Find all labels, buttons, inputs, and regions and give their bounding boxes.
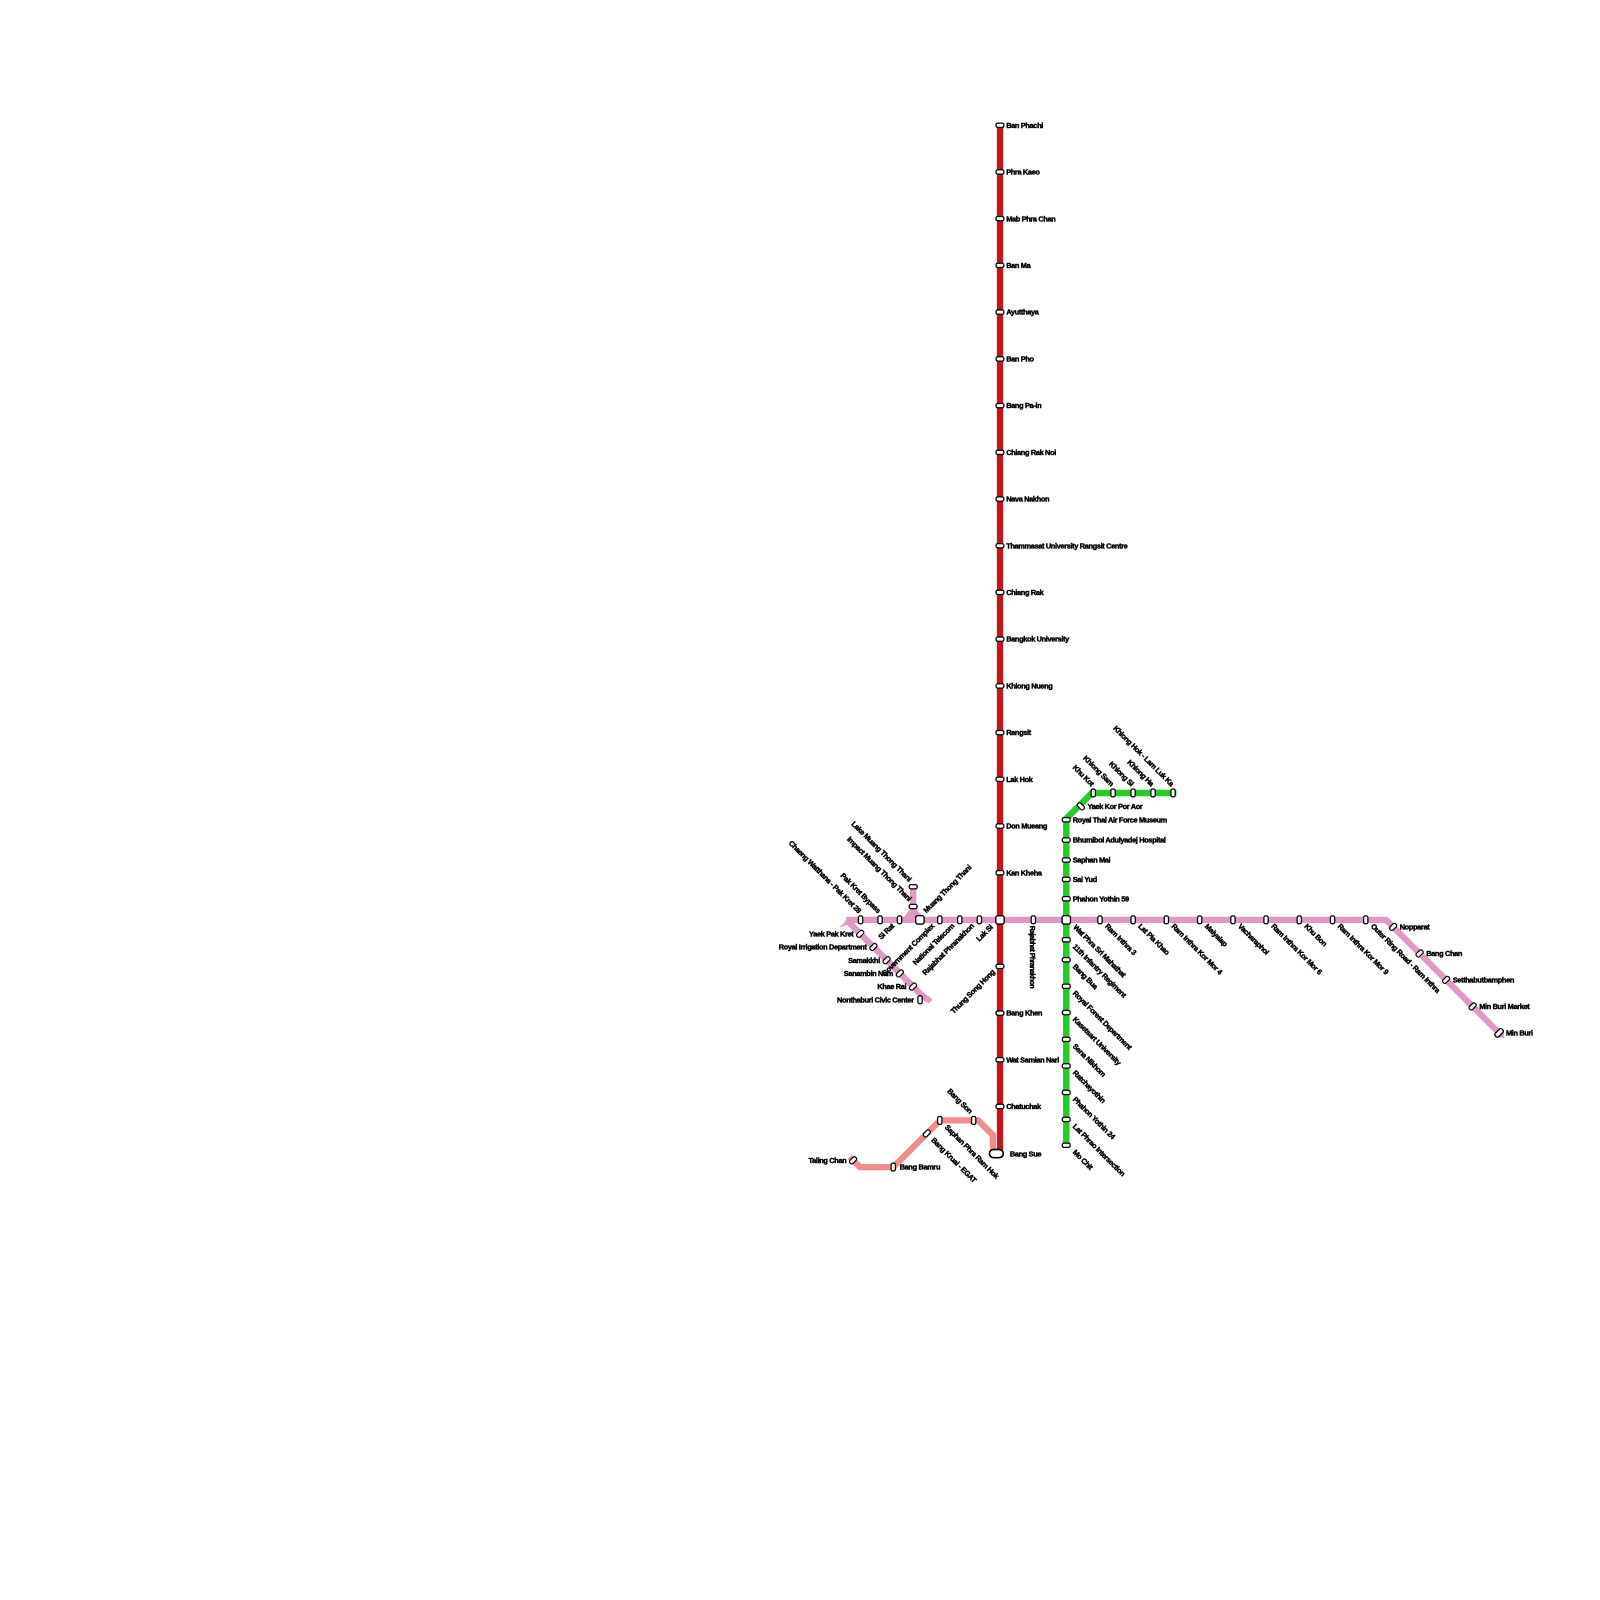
wire: pink west taper wedge xyxy=(839,917,851,928)
station Nopparat (pink) xyxy=(1389,923,1398,932)
svg-text:Don Mueang: Don Mueang xyxy=(1006,822,1048,831)
svg-text:Mo Chit: Mo Chit xyxy=(1071,1148,1095,1172)
wire: SRT dark red line (Ban Phachi - Bang Sue) xyxy=(997,123,1003,1153)
svg-text:Min Buri: Min Buri xyxy=(1506,1029,1533,1038)
station Bhumibol Adulyadej Hospital (green) xyxy=(1062,838,1070,842)
station Thung Song Hong (red) xyxy=(996,964,1004,968)
station Phahon Yothin 59 (green) xyxy=(1062,897,1070,901)
station Government Complex (pink) xyxy=(938,916,942,924)
svg-text:Yaek Kor Por Aor: Yaek Kor Por Aor xyxy=(1088,802,1143,811)
wire: MRT pink line main (Nonthaburi Civic Center - Min Buri) xyxy=(846,920,1501,1035)
svg-text:Phahon Yothin 59: Phahon Yothin 59 xyxy=(1073,894,1129,903)
station Don Mueang (red) xyxy=(996,824,1004,828)
station Ram Inthra Kor Mor 9 (pink) xyxy=(1330,916,1334,924)
station Chiang Rak (red) xyxy=(996,590,1004,594)
station Rangsit (red) xyxy=(996,731,1004,735)
wire: pink NCC taper xyxy=(929,997,932,1003)
svg-text:Kasetsart University: Kasetsart University xyxy=(1071,1015,1124,1068)
station Ban Ma (red) xyxy=(996,263,1004,267)
svg-text:Mab Phra Chan: Mab Phra Chan xyxy=(1006,214,1056,223)
station Sai Yud (green) xyxy=(1062,877,1070,881)
svg-text:Bhumibol Adulyadej Hospital: Bhumibol Adulyadej Hospital xyxy=(1073,836,1166,845)
terminus Lake Muang Thong Thani (pink spur) xyxy=(909,885,917,889)
station Sanambin Nam (pink) xyxy=(895,969,904,978)
station Min Buri Market (pink) xyxy=(1468,1002,1477,1011)
svg-text:Royal Thai Air Force Museum: Royal Thai Air Force Museum xyxy=(1073,815,1168,824)
station Bang Pa-in (red) xyxy=(996,404,1004,408)
station Royal Irrigation Department (pink) xyxy=(869,943,878,952)
svg-text:Yaek Pak Kret: Yaek Pak Kret xyxy=(809,929,854,938)
svg-text:Muang Thong Thani: Muang Thong Thani xyxy=(921,863,973,915)
station Rajabhat Phranakhon (pink, vertical label) xyxy=(1031,916,1035,924)
wire: SRT light red line (Taling Chan - Bang Sue) xyxy=(850,1120,993,1167)
svg-text:Bang Pa-in: Bang Pa-in xyxy=(1006,401,1042,410)
station Bang Chan (pink) xyxy=(1415,949,1424,958)
svg-text:Nava Nakhon: Nava Nakhon xyxy=(1006,495,1050,504)
svg-text:Rajabhat Phranakhon: Rajabhat Phranakhon xyxy=(1028,926,1035,989)
svg-text:Phra Kaeo: Phra Kaeo xyxy=(1006,168,1040,177)
station Ratchayothin (green) xyxy=(1062,1064,1070,1068)
svg-text:Royal Irrigation Department: Royal Irrigation Department xyxy=(779,943,868,952)
svg-text:Vacharaphol: Vacharaphol xyxy=(1236,922,1271,957)
svg-text:Chiang Rak Noi: Chiang Rak Noi xyxy=(1006,448,1056,457)
station Ram Inthra Kor Mor 4 (pink) xyxy=(1164,916,1168,924)
svg-text:Lak Hok: Lak Hok xyxy=(1006,775,1034,784)
station Chiang Rak Noi (red) xyxy=(996,450,1004,454)
station Saphan Mai (green) xyxy=(1062,858,1070,862)
svg-text:Bang Bamru: Bang Bamru xyxy=(900,1163,941,1172)
terminus Bang Sue (red + light red) xyxy=(989,1150,1003,1158)
wire: pink Min Buri taper xyxy=(1499,1033,1504,1038)
station Pak Kret Bypass (pink) xyxy=(878,916,882,924)
svg-text:Ban Phachi: Ban Phachi xyxy=(1006,121,1043,130)
station Khae Rai (pink) xyxy=(909,982,918,991)
station Ram Inthra 3 (pink) xyxy=(1098,916,1102,924)
station Royal Forest Department (green) xyxy=(1062,984,1070,988)
terminus Taling Chan (light red) xyxy=(849,1156,858,1165)
station Phahon Yothin 24 (green) xyxy=(1062,1090,1070,1094)
station Khu Bon (pink) xyxy=(1297,916,1301,924)
terminus Min Buri (pink) xyxy=(1494,1028,1504,1038)
svg-text:Sanambin Nam: Sanambin Nam xyxy=(844,969,894,978)
station Bang Bua (green) xyxy=(1062,958,1070,962)
svg-text:Bangkok University: Bangkok University xyxy=(1006,635,1070,644)
station Bangkok University (red) xyxy=(996,637,1004,641)
svg-text:Bang Khen: Bang Khen xyxy=(1006,1009,1043,1018)
station Ram Inthra Kor Mor 6 (pink) xyxy=(1264,916,1268,924)
station Ayutthaya (red) xyxy=(996,310,1004,314)
svg-text:Thammasat University Rangsit C: Thammasat University Rangsit Centre xyxy=(1006,541,1127,550)
station Mab Phra Chan (red) xyxy=(996,217,1004,221)
station Maiyalap (pink) xyxy=(1198,916,1202,924)
station Bang Bamru (light red) xyxy=(891,1163,895,1171)
wire: pink line Muang Thong Thani spur xyxy=(910,887,916,918)
station Phra Kaeo (red) xyxy=(996,170,1004,174)
station Kan Kheha (red) xyxy=(996,871,1004,875)
station Sena Nikhom (green) xyxy=(1062,1037,1070,1041)
svg-text:Lat Pla Khao: Lat Pla Khao xyxy=(1136,922,1172,958)
svg-text:Bang Chan: Bang Chan xyxy=(1426,949,1463,958)
svg-text:Ban Ma: Ban Ma xyxy=(1006,261,1031,270)
svg-text:Min Buri Market: Min Buri Market xyxy=(1479,1002,1530,1011)
station Yaek Kor Por Aor (green) xyxy=(1077,802,1086,811)
interchange Lak Si (pink x red) xyxy=(996,916,1004,924)
svg-text:Ram Inthra 3: Ram Inthra 3 xyxy=(1103,922,1138,957)
svg-text:Setthabutbamphen: Setthabutbamphen xyxy=(1453,976,1515,985)
svg-text:Thung Song Hong: Thung Song Hong xyxy=(949,967,998,1016)
station Nava Nakhon (red) xyxy=(996,497,1004,501)
svg-text:Lak Si: Lak Si xyxy=(974,923,994,943)
station Khlong Nueng (red) xyxy=(996,684,1004,688)
station Rajabhat Phranakhon (pink) xyxy=(977,916,981,924)
station 11th Infantry Regiment (green) xyxy=(1062,938,1070,942)
svg-text:Bang Kruai - EGAT: Bang Kruai - EGAT xyxy=(929,1136,978,1185)
station Khlong Si (green) xyxy=(1131,789,1135,797)
station Khlong Hok - Lam Luk Ka (green) xyxy=(1171,789,1175,797)
station Outer Ring Road - Ram Inthra (pink) xyxy=(1364,916,1368,924)
svg-text:Samakkhi: Samakkhi xyxy=(848,956,880,965)
svg-text:Ban Pho: Ban Pho xyxy=(1006,355,1034,364)
station Saphan Phra Ram Hok (light red) xyxy=(938,1117,942,1125)
svg-text:Kan Kheha: Kan Kheha xyxy=(1006,868,1043,877)
station Yaek Pak Kret (pink) xyxy=(856,929,865,938)
station Setthabutbamphen (pink) xyxy=(1442,976,1451,985)
svg-text:Chiang Rak: Chiang Rak xyxy=(1006,588,1044,597)
station Mo Chit (green) xyxy=(1062,1143,1070,1147)
station Khlong Ha (green) xyxy=(1151,789,1155,797)
svg-text:Khu Bon: Khu Bon xyxy=(1302,922,1329,949)
station Samakkhi (pink) xyxy=(882,956,891,965)
svg-text:Bang Son: Bang Son xyxy=(945,1087,974,1116)
station Bang Khen (red) xyxy=(996,1011,1004,1015)
station Lat Phrao Intersection (green) xyxy=(1062,1117,1070,1121)
interchange Wat Phra Sri Mahathat (pink x green) xyxy=(1062,916,1070,924)
station Ban Phachi (red) xyxy=(996,123,1004,127)
station Lat Pla Khao (pink) xyxy=(1131,916,1135,924)
station Chatuchak (red) xyxy=(996,1104,1004,1108)
wire: pink Nonthaburi diagonal branch xyxy=(846,920,929,1000)
station Khlong Sam (green) xyxy=(1111,789,1115,797)
svg-text:Khlong Nueng: Khlong Nueng xyxy=(1006,682,1053,691)
terminus Nonthaburi Civic Center (pink) xyxy=(918,996,922,1004)
svg-text:Saphan Mai: Saphan Mai xyxy=(1073,856,1111,865)
svg-text:Maiyalap: Maiyalap xyxy=(1203,922,1230,949)
station Khu Kot (green) xyxy=(1091,789,1095,797)
svg-text:Ayutthaya: Ayutthaya xyxy=(1006,308,1040,317)
station Si Rat (pink) xyxy=(897,916,901,924)
svg-text:Nopparat: Nopparat xyxy=(1400,923,1431,932)
svg-text:Bang Sue: Bang Sue xyxy=(1010,1149,1042,1158)
station Lak Hok (red) xyxy=(996,777,1004,781)
station Bang Son (light red) xyxy=(972,1117,976,1125)
station Royal Thai Air Force Museum (green) xyxy=(1062,818,1070,822)
svg-text:Sai Yud: Sai Yud xyxy=(1073,875,1098,884)
station Vacharaphol (pink) xyxy=(1231,916,1235,924)
station Thammasat University Rangsit Centre (red) xyxy=(996,544,1004,548)
station Ban Pho (red) xyxy=(996,357,1004,361)
svg-text:Khae Rai: Khae Rai xyxy=(877,982,906,991)
station Impact Muang Thong Thani (pink spur) xyxy=(909,904,917,908)
station Bang Kruai - EGAT (light red) xyxy=(922,1129,931,1138)
svg-text:Nonthaburi Civic Center: Nonthaburi Civic Center xyxy=(837,995,914,1004)
station Chaeng Watthana - Pak Kret 28 (pink) xyxy=(858,916,862,924)
svg-text:Wat Samian Nari: Wat Samian Nari xyxy=(1006,1055,1059,1064)
interchange Muang Thong Thani (pink) xyxy=(916,916,924,924)
station National Telecom (pink) xyxy=(958,916,962,924)
svg-text:Chatuchak: Chatuchak xyxy=(1006,1102,1042,1111)
wire: BTS green line (Khu Khot extension - Mo Chit) xyxy=(1066,793,1176,1148)
station Wat Samian Nari (red) xyxy=(996,1058,1004,1062)
station Kasetsart University (green) xyxy=(1062,1010,1070,1014)
svg-text:Rangsit: Rangsit xyxy=(1006,728,1032,737)
svg-text:Taling Chan: Taling Chan xyxy=(808,1156,847,1165)
